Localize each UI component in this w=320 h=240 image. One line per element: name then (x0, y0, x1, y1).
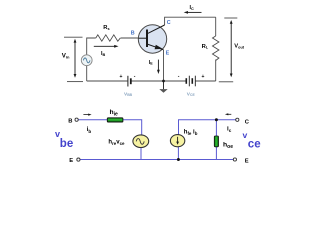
ground (159, 80, 167, 93)
resistor hoe (214, 136, 218, 147)
current arrow IB (94, 45, 119, 48)
svg-text:IB: IB (101, 51, 106, 57)
svg-text:be: be (60, 138, 73, 150)
svg-text:hoe: hoe (223, 142, 233, 150)
terminal E right (233, 158, 236, 161)
svg-text:hfe ib: hfe ib (184, 129, 198, 136)
svg-text:+: + (202, 74, 205, 80)
source hre*vce (133, 135, 149, 148)
wire input corner to resistor (87, 38, 96, 55)
svg-text:C: C (167, 20, 171, 26)
wire hre source to bottom (140, 147, 142, 159)
transistor Q1 (138, 25, 166, 53)
current arrow ic (225, 113, 231, 115)
svg-text:VBB: VBB (124, 92, 133, 98)
wire hoe bottom (215, 147, 217, 160)
current arrow ib (83, 114, 91, 116)
base bar (146, 30, 148, 48)
wire resistor to base (121, 37, 139, 39)
svg-text:E: E (245, 159, 249, 165)
svg-text:B: B (68, 118, 72, 124)
resistor Rs (96, 35, 121, 41)
battery VCE (186, 76, 195, 87)
svg-text:Vout: Vout (234, 44, 245, 50)
svg-text:+: + (120, 74, 123, 80)
svg-text:VCE: VCE (187, 92, 196, 98)
svg-text:Vin: Vin (62, 53, 70, 60)
AC source Vin (81, 55, 92, 66)
wire collector up (165, 17, 216, 25)
wire bottom E rail (80, 159, 234, 161)
svg-text:E: E (166, 51, 170, 57)
node Vin bottom bar (67, 81, 83, 83)
wire hfe source bottom (177, 147, 179, 160)
svg-text:IE: IE (149, 60, 153, 66)
svg-text:ce: ce (248, 138, 261, 150)
svg-text:v: v (243, 130, 248, 140)
source hfe*ib (170, 135, 184, 147)
svg-text:B: B (131, 31, 135, 37)
junction dot bottom (177, 158, 180, 161)
svg-text:Rs: Rs (103, 25, 109, 31)
wire hoe top (215, 120, 217, 136)
wire emitter down (163, 50, 165, 81)
resistor RL (213, 36, 219, 61)
base wire inside (139, 37, 148, 39)
wire bottom left segment (87, 80, 128, 82)
terminal E left (77, 158, 80, 161)
battery VBB (128, 76, 131, 87)
emitter arrowhead (155, 45, 163, 50)
wire hie to corner down to hre source (123, 120, 142, 136)
wire RL bottom (215, 60, 217, 82)
measurement arrow Vout (219, 18, 238, 82)
wire bottom right segment (196, 80, 216, 82)
emitter diagonal (147, 44, 164, 50)
measurement arrow Vin (74, 39, 77, 78)
terminal B (75, 118, 78, 121)
svg-text:E: E (69, 158, 73, 164)
collector diagonal (147, 25, 165, 34)
svg-text:hrevce: hrevce (108, 140, 125, 147)
wire source bottom (86, 65, 88, 81)
svg-text:IC: IC (190, 5, 195, 11)
terminal C (236, 118, 239, 121)
node Vin top bar (64, 36, 83, 38)
current arrow IE (157, 60, 160, 74)
wire RL top (215, 17, 217, 36)
wire bottom mid segment (131, 80, 186, 82)
wire B to hie (78, 119, 107, 121)
wire hfe source top (179, 120, 236, 135)
resistor hie (107, 118, 123, 122)
junction dot top (215, 118, 218, 121)
current arrow IC (184, 11, 202, 14)
svg-text:RL: RL (202, 44, 209, 50)
